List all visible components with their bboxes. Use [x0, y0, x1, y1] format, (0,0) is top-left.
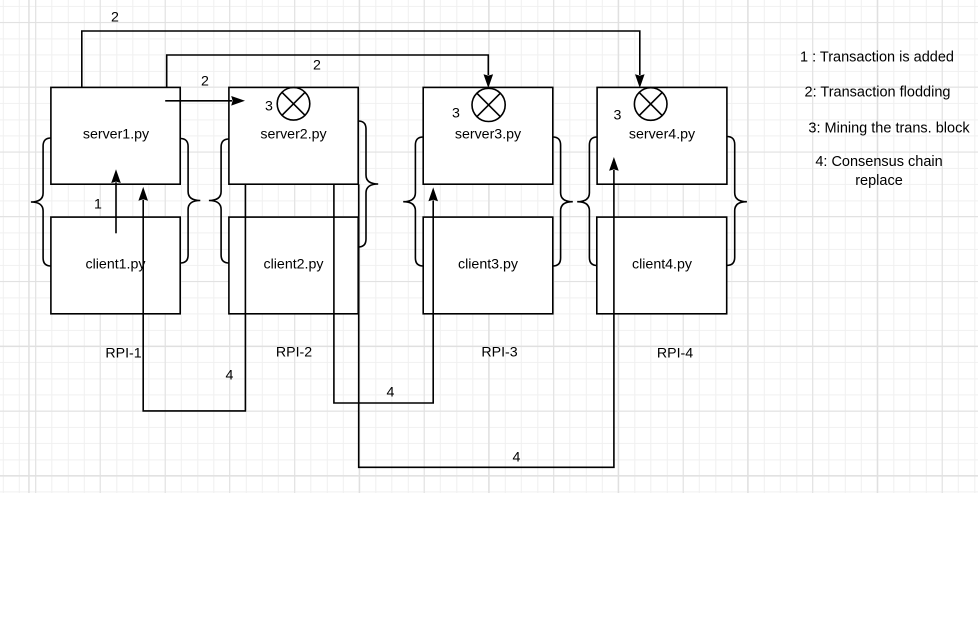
edge 4 server2 to server4 [359, 157, 619, 467]
brace RPI-2 right [358, 121, 378, 247]
label client2.py [264, 256, 324, 273]
brace RPI-3 right [553, 137, 573, 266]
label server1.py [83, 126, 149, 143]
edge 2 server1 to server2 [165, 96, 245, 106]
label RPI-4 [657, 345, 693, 362]
box client3.py [423, 217, 553, 314]
label server3.py [455, 126, 521, 143]
label 2 near [201, 73, 209, 90]
box server2.py [229, 87, 358, 184]
legend line 3 [808, 119, 969, 138]
box client2.py [229, 217, 358, 314]
label client3.py [458, 256, 518, 273]
box client1.py [51, 217, 180, 314]
label 3 at server3 [452, 105, 460, 122]
label client1.py [86, 256, 146, 273]
edge 1 client1 to server1 [111, 169, 121, 233]
brace RPI-3 left [403, 137, 423, 266]
legend line 2 [805, 84, 951, 103]
legend line 1 [800, 49, 954, 68]
brace RPI-4 left [577, 137, 597, 266]
label 3 at server2 [265, 98, 273, 115]
box client4.py [597, 217, 727, 314]
label client4.py [632, 256, 692, 273]
mining symbol server3 [472, 88, 505, 121]
label RPI-3 [481, 344, 517, 361]
edge 4 server2 to server3 [334, 184, 438, 403]
label RPI-1 [105, 345, 141, 362]
mining symbol server4 [634, 88, 667, 121]
brace RPI-1 right [180, 139, 200, 264]
brace RPI-4 right [727, 137, 747, 266]
edge 2 server1 to server3 top [167, 55, 493, 88]
box server1.py [51, 87, 180, 184]
label RPI-2 [276, 344, 312, 361]
label 3 at server4 [614, 107, 622, 124]
label server2.py [260, 126, 326, 143]
label 2 middle [313, 57, 321, 74]
brace RPI-2 left [209, 139, 229, 263]
edge 4 server2 to server1 [138, 184, 245, 411]
mining symbol server2 [277, 88, 310, 121]
edge 2 server1 to server4 top [82, 31, 645, 88]
box server4.py [597, 87, 727, 184]
label 4 loop1 [226, 368, 234, 385]
legend line 4 [815, 153, 942, 191]
label 2 top far [111, 9, 119, 26]
brace RPI-1 left [31, 138, 51, 266]
label server4.py [629, 126, 695, 143]
label 4 loop3 [513, 449, 521, 466]
label 4 loop2 [387, 384, 395, 401]
box server3.py [423, 87, 553, 184]
label 1 [94, 196, 102, 213]
